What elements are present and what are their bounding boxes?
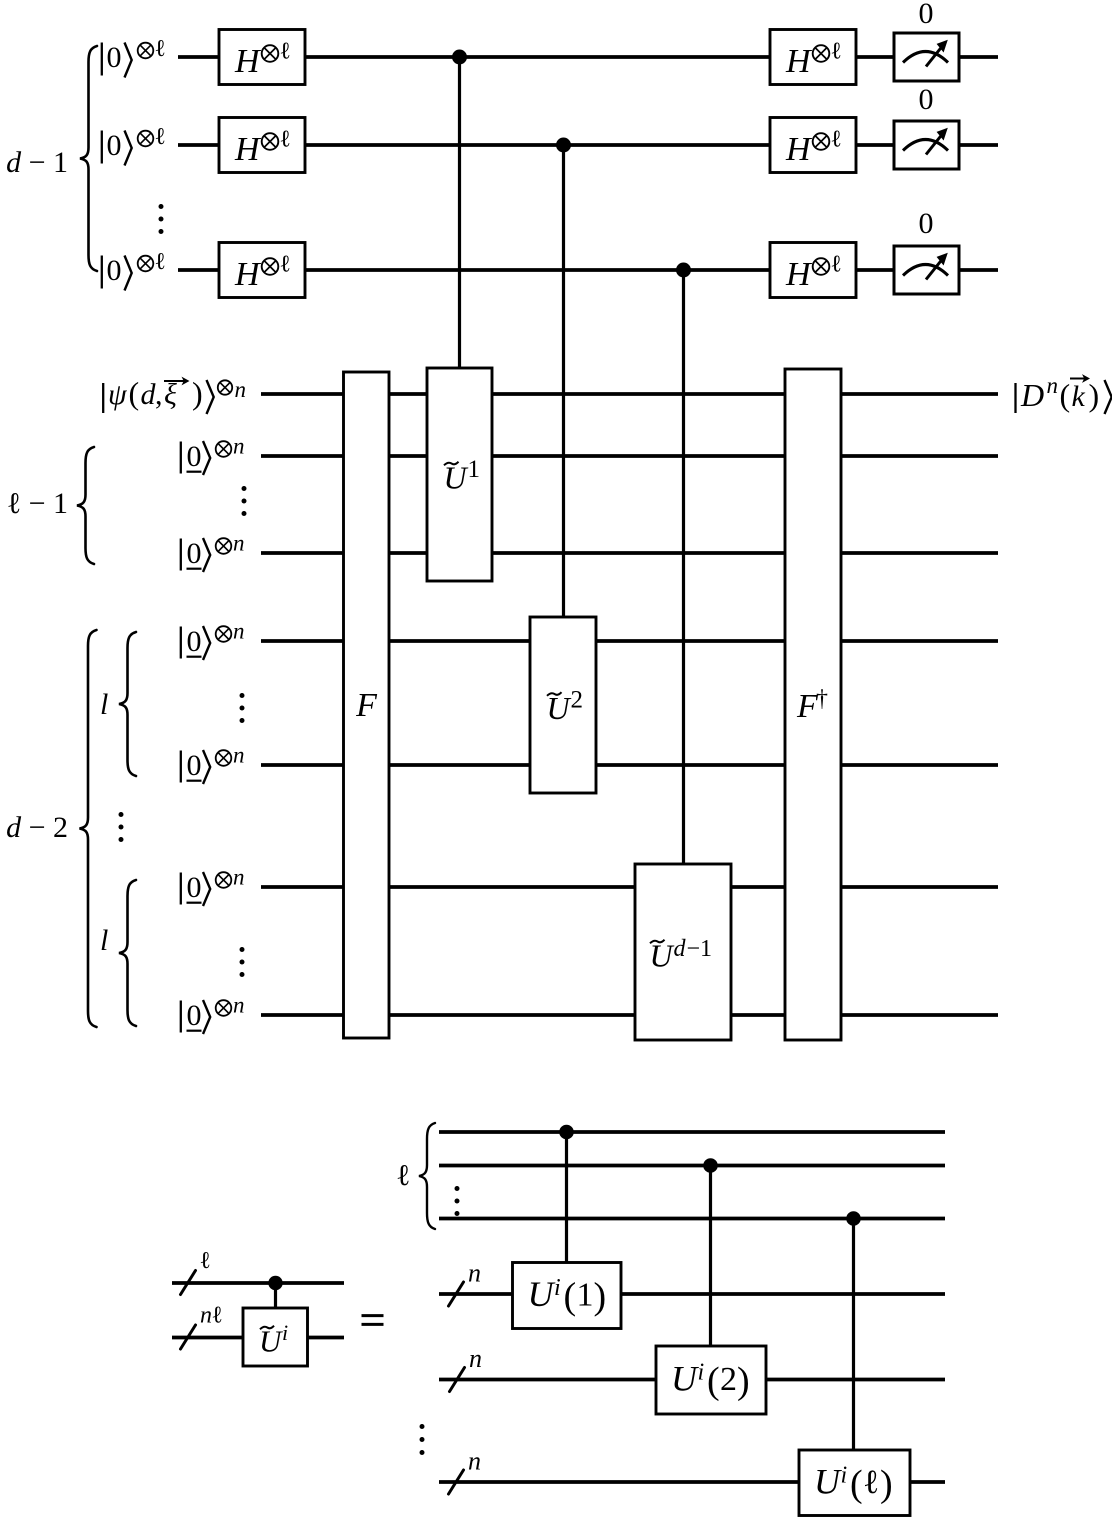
svg-text:n: n bbox=[233, 531, 245, 556]
control dot mini bbox=[268, 1276, 282, 1290]
label l on slash bbox=[200, 1248, 212, 1274]
control dot expanded 2 bbox=[703, 1158, 718, 1173]
gate H tensor l qubit 2 column 1 bbox=[219, 118, 305, 173]
svg-text:U: U bbox=[650, 938, 675, 974]
svg-text:n: n bbox=[200, 1303, 212, 1329]
wire psi register bbox=[261, 392, 998, 396]
brace d-2 group bbox=[80, 630, 97, 1027]
svg-text:0: 0 bbox=[187, 871, 202, 904]
control dot expanded 1 bbox=[559, 1125, 574, 1140]
svg-text:ℓ: ℓ bbox=[280, 127, 292, 153]
svg-text:ℓ: ℓ bbox=[831, 127, 843, 153]
svg-text:(: ( bbox=[850, 1463, 863, 1505]
svg-text:i: i bbox=[282, 1320, 288, 1345]
vertical dots between ancilla 1 and 2 bbox=[242, 486, 247, 516]
label d-1 bbox=[6, 146, 68, 179]
svg-text:(: ( bbox=[1060, 377, 1071, 413]
wire ancilla register 1 bbox=[261, 454, 998, 458]
svg-text:0: 0 bbox=[187, 999, 202, 1032]
wire ancilla register 2 bbox=[261, 551, 998, 555]
slash n bus 3 bbox=[449, 1470, 464, 1494]
svg-text:n: n bbox=[235, 377, 247, 402]
label l-1 bbox=[7, 487, 68, 520]
control dot on qubit 3 bbox=[676, 263, 691, 278]
label ket0 tensor l qubit 2 bbox=[102, 124, 166, 166]
svg-text:n: n bbox=[1047, 373, 1059, 398]
svg-text:d − 1: d − 1 bbox=[6, 146, 68, 179]
svg-text:H: H bbox=[785, 256, 813, 293]
vertical dots top register group bbox=[159, 204, 164, 234]
svg-text:n: n bbox=[468, 1447, 481, 1476]
svg-text:2: 2 bbox=[720, 1361, 737, 1398]
gate H tensor l qubit 3 column 2 bbox=[770, 243, 856, 298]
vertical dots between ancilla 3 and 4 bbox=[240, 693, 245, 723]
svg-text:0: 0 bbox=[919, 83, 934, 116]
svg-text:): ) bbox=[737, 1360, 750, 1402]
wire top qubit 1 bbox=[178, 55, 998, 59]
gate U~d-1 bbox=[635, 864, 731, 1040]
svg-text:0: 0 bbox=[187, 537, 202, 570]
svg-text:U: U bbox=[814, 1461, 842, 1501]
vertical control wire from qubit 3 to gate U~d-1 bbox=[682, 270, 685, 865]
vertical dots inside d-2 group bbox=[119, 812, 124, 842]
svg-text:H: H bbox=[234, 131, 262, 168]
label l upper bbox=[100, 688, 108, 721]
gate F dagger bbox=[785, 369, 841, 1040]
vertical control wire to Ui(2) bbox=[709, 1166, 712, 1348]
svg-text:U: U bbox=[671, 1359, 699, 1399]
gate U~i mini bbox=[243, 1308, 308, 1366]
svg-text:0: 0 bbox=[107, 129, 122, 162]
control dot on qubit 2 bbox=[556, 138, 571, 153]
label l lower bbox=[100, 924, 108, 957]
svg-text:0: 0 bbox=[107, 41, 122, 74]
measurement meter qubit 2 bbox=[894, 121, 959, 169]
gate U~1 bbox=[427, 368, 492, 581]
vertical control wire from qubit 2 to gate U~2 bbox=[562, 145, 565, 618]
svg-text:d − 2: d − 2 bbox=[6, 811, 68, 844]
wire expanded control 2 bbox=[439, 1164, 945, 1168]
svg-text:(: ( bbox=[129, 375, 140, 411]
brace l group lower bbox=[119, 880, 136, 1026]
svg-text:n: n bbox=[233, 619, 245, 644]
svg-text:l: l bbox=[100, 688, 108, 721]
gate Ui(2) bbox=[656, 1346, 766, 1414]
svg-text:0: 0 bbox=[107, 254, 122, 287]
svg-text:0: 0 bbox=[187, 625, 202, 658]
svg-text:H: H bbox=[234, 43, 262, 80]
svg-text:n: n bbox=[233, 743, 245, 768]
svg-text:H: H bbox=[234, 256, 262, 293]
svg-text:ℓ: ℓ bbox=[280, 39, 292, 65]
wire ancilla register 3 bbox=[261, 639, 998, 643]
measurement meter qubit 3 bbox=[894, 246, 959, 294]
vertical control wire mini bbox=[274, 1283, 277, 1308]
label 0 measurement outcome qubit 2 bbox=[919, 83, 934, 116]
vertical control wire to Ui(1) bbox=[565, 1132, 568, 1263]
slash nl bus bbox=[181, 1325, 196, 1349]
label ket0underline tensor n register 5 bbox=[181, 865, 245, 907]
gate U~2 bbox=[530, 617, 596, 793]
wire expanded target 3 bbox=[439, 1480, 945, 1484]
svg-text:0: 0 bbox=[919, 0, 934, 30]
svg-text:ℓ: ℓ bbox=[280, 252, 292, 278]
wire ancilla register 6 bbox=[261, 1013, 998, 1017]
svg-text:U: U bbox=[528, 1274, 556, 1314]
svg-text:0: 0 bbox=[187, 749, 202, 782]
brace l group expanded bbox=[419, 1123, 435, 1229]
svg-text:ℓ: ℓ bbox=[863, 1464, 879, 1501]
svg-text:F: F bbox=[355, 687, 378, 724]
label n on bus 1 bbox=[468, 1259, 481, 1288]
svg-text:): ) bbox=[880, 1463, 893, 1505]
svg-text:U: U bbox=[547, 690, 572, 726]
svg-text:1: 1 bbox=[577, 1277, 594, 1314]
svg-text:2: 2 bbox=[571, 687, 584, 714]
label ket D^n(k) output bbox=[1016, 373, 1112, 414]
svg-text:0: 0 bbox=[919, 207, 934, 240]
svg-text:): ) bbox=[594, 1276, 607, 1318]
svg-text:i: i bbox=[698, 1360, 705, 1386]
label ket0underline tensor n register 6 bbox=[181, 993, 245, 1035]
svg-text:(: ( bbox=[707, 1360, 720, 1402]
label ket0 tensor l qubit 1 bbox=[102, 36, 166, 78]
slash l bus bbox=[181, 1271, 196, 1295]
svg-text:i: i bbox=[841, 1462, 848, 1488]
gate Ui(1) bbox=[513, 1263, 622, 1329]
svg-text:ℓ: ℓ bbox=[831, 252, 843, 278]
svg-text:,: , bbox=[155, 378, 163, 411]
label 0 measurement outcome qubit 3 bbox=[919, 207, 934, 240]
svg-text:): ) bbox=[192, 375, 203, 411]
svg-text:H: H bbox=[785, 43, 813, 80]
svg-text:ℓ − 1: ℓ − 1 bbox=[7, 487, 68, 520]
svg-text:−1: −1 bbox=[687, 936, 713, 962]
wire ancilla register 5 bbox=[261, 885, 998, 889]
svg-text:1: 1 bbox=[468, 456, 481, 483]
svg-text:l: l bbox=[100, 924, 108, 957]
slash n bus 1 bbox=[449, 1282, 464, 1306]
vertical dots expanded target group bbox=[420, 1424, 425, 1455]
label d-2 bbox=[6, 811, 68, 844]
svg-text:n: n bbox=[233, 865, 245, 890]
wire expanded control 3 bbox=[439, 1217, 945, 1221]
label ket0underline tensor n register 3 bbox=[181, 619, 245, 661]
measurement meter qubit 1 bbox=[894, 33, 959, 81]
wire top qubit 2 bbox=[178, 143, 998, 147]
svg-text:H: H bbox=[785, 131, 813, 168]
gate Ui(l) bbox=[799, 1450, 910, 1516]
svg-text:): ) bbox=[1089, 377, 1100, 413]
gate F (QFT) bbox=[344, 372, 390, 1038]
vertical control wire to Ui(l) bbox=[852, 1219, 855, 1452]
svg-text:n: n bbox=[468, 1259, 481, 1288]
svg-text:D: D bbox=[1020, 377, 1044, 413]
label ket psi(d,xi) tensor n bbox=[103, 375, 246, 414]
label ket0underline tensor n register 4 bbox=[181, 743, 245, 785]
control dot expanded 3 bbox=[846, 1211, 861, 1226]
gate H tensor l qubit 2 column 2 bbox=[770, 118, 856, 173]
svg-text:ℓ: ℓ bbox=[155, 124, 167, 150]
svg-text:(: ( bbox=[564, 1276, 577, 1318]
label ket0underline tensor n register 2 bbox=[181, 531, 245, 573]
svg-text:k: k bbox=[1072, 380, 1086, 413]
wire mini control (l bus) bbox=[172, 1281, 344, 1285]
gate H tensor l qubit 1 column 2 bbox=[770, 30, 856, 85]
svg-text:ℓ: ℓ bbox=[831, 39, 843, 65]
svg-text:n: n bbox=[233, 434, 245, 459]
svg-text:ℓ: ℓ bbox=[155, 36, 167, 62]
brace l group upper bbox=[119, 632, 136, 776]
label 0 measurement outcome qubit 1 bbox=[919, 0, 934, 30]
vertical control wire from qubit 1 to gate U~1 bbox=[458, 57, 461, 369]
label n on bus 2 bbox=[469, 1344, 482, 1373]
svg-text:n: n bbox=[233, 993, 245, 1018]
svg-text:U: U bbox=[444, 460, 469, 496]
slash n bus 2 bbox=[450, 1368, 465, 1392]
label ket0 tensor l qubit 3 bbox=[102, 249, 166, 291]
brace d-1 group bbox=[80, 46, 97, 271]
equals sign bbox=[362, 1316, 384, 1325]
control dot on qubit 1 bbox=[452, 50, 467, 65]
gate H tensor l qubit 3 column 1 bbox=[219, 243, 305, 298]
svg-text:n: n bbox=[469, 1344, 482, 1373]
svg-text:d: d bbox=[674, 936, 687, 962]
svg-text:ℓ: ℓ bbox=[155, 249, 167, 275]
svg-text:ℓ: ℓ bbox=[396, 1159, 410, 1192]
svg-text:ℓ: ℓ bbox=[200, 1248, 212, 1274]
svg-text:ξ: ξ bbox=[164, 378, 177, 411]
svg-text:†: † bbox=[816, 686, 828, 712]
svg-text:ℓ: ℓ bbox=[212, 1303, 224, 1329]
svg-text:i: i bbox=[554, 1275, 561, 1301]
vertical dots expanded control group bbox=[455, 1186, 460, 1216]
brace l-1 group bbox=[77, 447, 94, 564]
label ket0underline tensor n register 1 bbox=[181, 434, 245, 476]
label nl on slash bbox=[200, 1303, 223, 1329]
wire expanded target 2 bbox=[439, 1378, 945, 1382]
wire expanded control 1 bbox=[439, 1130, 945, 1134]
wire top qubit 3 bbox=[178, 268, 998, 272]
vertical dots between ancilla 5 and 6 bbox=[240, 947, 245, 977]
label n on bus 3 bbox=[468, 1447, 481, 1476]
wire mini target (nl bus) bbox=[172, 1336, 344, 1340]
gate H tensor l qubit 1 column 1 bbox=[219, 30, 305, 85]
wire expanded target 1 bbox=[439, 1292, 945, 1296]
label l expanded bbox=[396, 1159, 410, 1192]
svg-text:0: 0 bbox=[187, 440, 202, 473]
wire ancilla register 4 bbox=[261, 763, 998, 767]
svg-text:ψ: ψ bbox=[108, 378, 128, 411]
